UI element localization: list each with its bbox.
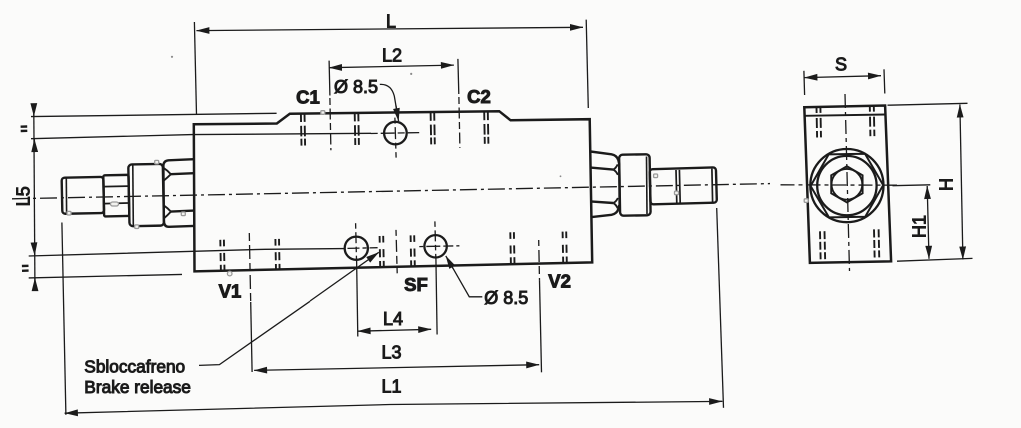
end view vertical centerline: [845, 94, 850, 271]
left cartridge hex nut: [103, 175, 129, 217]
brake release leader: [199, 301, 310, 365]
dimension H1: [893, 185, 931, 259]
svg-text:V1: V1: [219, 281, 242, 302]
valve body (front view outline): [194, 111, 592, 271]
bottom hole right extension to L4: [436, 258, 437, 335]
dimension S: [804, 69, 885, 95]
port V1 thread marks left: [220, 240, 224, 271]
bottom hole right horizontal dash: [419, 245, 459, 248]
port V1 centerline: [249, 233, 250, 302]
port C1 centerline: [330, 98, 331, 150]
end view top band line: [805, 115, 886, 116]
left cartridge large hex: [163, 159, 194, 227]
bottom hole left horizontal dash: [348, 247, 378, 250]
port V1 thread marks right: [275, 239, 279, 270]
svg-text:L2: L2: [382, 46, 402, 66]
end view thread marks top-left: [817, 107, 822, 137]
port SF thread marks left: [380, 236, 384, 267]
dimension L3: [254, 365, 539, 371]
port V2 extension to L3: [540, 280, 542, 372]
right cartridge washer: [619, 154, 651, 216]
top hole circle: [384, 122, 407, 145]
right cartridge hex: [591, 152, 620, 218]
left cartridge flange washer: [128, 164, 164, 226]
svg-text:C1: C1: [296, 87, 320, 108]
end view socket circle: [832, 169, 863, 200]
port V2 thread marks left: [510, 232, 514, 264]
svg-text:Ø 8.5: Ø 8.5: [334, 77, 378, 97]
L5 / = vertical dimension line: [34, 110, 35, 290]
right cartridge stem: [650, 167, 717, 204]
bottom hole left vertical centerline: [355, 223, 358, 260]
L1 left extension line: [62, 223, 66, 415]
port C2 thread marks left: [431, 112, 435, 144]
reference line eq-bottom-2: [29, 274, 182, 278]
svg-text:C2: C2: [467, 86, 491, 107]
left cartridge stem: [62, 177, 104, 214]
bottom hole left extension to L4: [357, 260, 358, 337]
svg-text:Brake release: Brake release: [84, 377, 191, 397]
end view socket hexagon: [831, 166, 862, 202]
end view horizontal centerline: [781, 184, 898, 186]
dimension L: [194, 20, 588, 115]
svg-text:S: S: [835, 55, 847, 75]
leader for top hole: [380, 84, 398, 115]
reference line eq-bottom-1 (lower hole row): [29, 249, 345, 256]
svg-text:Ø 8.5: Ø 8.5: [484, 288, 528, 308]
port C2 centerline: [459, 97, 460, 148]
port SF thread marks right: [411, 235, 415, 266]
top hole vertical centerline: [395, 118, 396, 158]
port V2 centerline: [538, 240, 541, 280]
svg-text:L5: L5: [14, 186, 34, 206]
equals symbol top: [21, 127, 28, 132]
port V1 extension to L3: [251, 302, 252, 372]
end view outer circle: [810, 149, 883, 222]
reference line eq-top-2 (upper hole row): [31, 133, 371, 138]
main horizontal centerline: [12, 184, 770, 199]
dimension L2: [329, 59, 459, 96]
end view rectangle: [804, 106, 891, 263]
end view thread marks top-right: [870, 106, 875, 136]
bottom hole right circle: [424, 235, 446, 257]
port C2 thread marks right: [484, 112, 488, 144]
svg-text:Sbloccafreno: Sbloccafreno: [84, 357, 185, 377]
top hole horizontal centerline: [371, 132, 420, 135]
svg-text:L3: L3: [381, 343, 401, 363]
port C1 thread marks left: [301, 114, 305, 146]
port C1 thread marks right: [355, 113, 359, 145]
dimension L1: [65, 401, 723, 413]
scan specks: [171, 56, 561, 178]
svg-text:H1: H1: [910, 215, 930, 238]
port V2 thread marks right: [563, 232, 567, 264]
svg-text:L: L: [386, 12, 396, 32]
svg-text:L4: L4: [383, 309, 403, 329]
bottom hole right vertical centerline: [434, 221, 437, 258]
svg-text:H: H: [937, 178, 957, 191]
leader for bottom hole: [451, 264, 483, 297]
end view thread marks bottom-left: [820, 231, 825, 262]
svg-text:SF: SF: [404, 274, 428, 295]
bottom hole left circle: [345, 237, 368, 260]
equals symbol bottom: [22, 266, 29, 271]
end view thread marks bottom-right: [874, 229, 879, 260]
port SF centerline: [396, 230, 397, 273]
end view plug hexagon: [811, 154, 884, 218]
L1 right extension line: [717, 208, 724, 408]
reference line eq-top-1: [31, 113, 277, 116]
svg-text:V2: V2: [548, 271, 571, 292]
svg-text:L1: L1: [381, 377, 401, 397]
end view chamfer circle: [817, 156, 876, 215]
dimension H: [888, 103, 973, 261]
scan artifact handles: [67, 111, 808, 276]
dimension L4: [358, 329, 432, 331]
